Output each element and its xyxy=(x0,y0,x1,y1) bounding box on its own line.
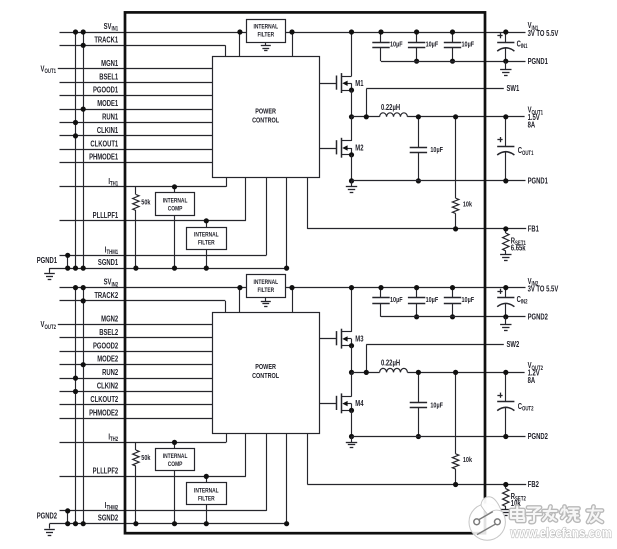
svg-text:PGND1: PGND1 xyxy=(528,177,548,186)
wire MODE1 xyxy=(60,109,213,111)
wire MGN1 xyxy=(58,68,212,70)
wire svin drops xyxy=(239,32,241,57)
svg-text:PGND2: PGND2 xyxy=(528,432,548,441)
capacitor 10uF input 1 ch1 xyxy=(380,32,382,42)
svg-text:8A: 8A xyxy=(528,121,536,130)
wire comp stubs xyxy=(174,442,176,448)
svg-text:50k: 50k xyxy=(141,199,150,207)
resistor 10k ch2 xyxy=(455,372,457,453)
wire filter stubs xyxy=(206,476,208,483)
capacitor 10uF output ch2 xyxy=(418,372,420,402)
svg-text:PGND1: PGND1 xyxy=(528,57,548,66)
wire MODE2 xyxy=(60,364,213,366)
svg-text:BSEL1: BSEL1 xyxy=(99,72,118,81)
svg-text:CONTROL: CONTROL xyxy=(252,117,279,125)
wire PGND2 lower rail xyxy=(352,436,526,438)
wire CLKOUT1 xyxy=(60,149,213,151)
svg-text:10k: 10k xyxy=(463,456,472,464)
svg-text:SW2: SW2 xyxy=(507,340,520,349)
svg-text:CLKOUT2: CLKOUT2 xyxy=(90,395,118,404)
internal comp box ch2 xyxy=(156,449,195,471)
wire SGND1 xyxy=(50,268,287,270)
svg-text:INTERNAL: INTERNAL xyxy=(163,198,188,205)
svg-text:BSEL2: BSEL2 xyxy=(99,328,118,337)
wire CLKOUT2 xyxy=(60,404,213,406)
ground below R_SET2 xyxy=(500,509,511,511)
capacitor 10uF input 2 ch2 xyxy=(416,288,418,298)
wire PHMODE2 xyxy=(60,418,213,420)
internal comp box ch1 xyxy=(156,193,195,216)
svg-text:MODE2: MODE2 xyxy=(97,355,118,364)
wire PGOOD1 xyxy=(60,95,213,97)
wire filter stubs xyxy=(206,221,208,228)
svg-text:0.22µH: 0.22µH xyxy=(381,103,400,112)
wire PGOOD2 xyxy=(60,351,213,353)
ground PGND1 xyxy=(49,268,51,273)
watermark text dianzifashaoyou xyxy=(511,507,602,523)
transistor M4 xyxy=(337,393,355,413)
wire svin drops xyxy=(239,288,241,313)
wire TRACK2 xyxy=(60,300,226,302)
wire ITHM1 xyxy=(60,255,267,257)
svg-text:10µF: 10µF xyxy=(430,146,443,154)
wire SV_IN2 xyxy=(60,287,526,289)
wire drain M3 xyxy=(351,288,353,332)
svg-text:CONTROL: CONTROL xyxy=(252,372,279,380)
internal filter box lower ch1 xyxy=(187,228,227,250)
svg-text:TRACK2: TRACK2 xyxy=(94,291,118,300)
wire source M1 xyxy=(351,90,353,117)
resistor R_SET2 xyxy=(505,485,507,489)
svg-text:M1: M1 xyxy=(355,79,363,88)
wire CLKIN2 xyxy=(60,391,213,393)
svg-text:PGOOD1: PGOOD1 xyxy=(93,86,118,95)
ground PGND2 xyxy=(49,524,51,529)
ground below M4 xyxy=(351,437,353,443)
ground internal filter xyxy=(265,42,267,46)
wire left rail B xyxy=(83,288,85,524)
svg-text:POWER: POWER xyxy=(255,363,276,371)
svg-text:PHMODE2: PHMODE2 xyxy=(89,408,118,417)
wire PLLLPF1 xyxy=(60,220,246,222)
wire source M2 xyxy=(351,155,353,181)
wire PGND2 top rail xyxy=(381,316,526,318)
svg-text:PGND2: PGND2 xyxy=(528,313,548,322)
capacitor C_IN1 xyxy=(505,32,507,42)
resistor 50k ch1 xyxy=(135,187,137,195)
svg-text:RUN1: RUN1 xyxy=(102,113,118,122)
wire left rail A xyxy=(75,288,77,524)
wire left rail A xyxy=(75,32,77,268)
wire gate M2 xyxy=(319,148,337,150)
op-amp U2 POWER CONTROL xyxy=(213,313,320,434)
internal filter box top ch1 xyxy=(247,20,286,43)
transistor M1 xyxy=(337,73,355,93)
svg-text:0.22µH: 0.22µH xyxy=(381,359,400,368)
svg-text:INTERNAL: INTERNAL xyxy=(253,280,278,287)
svg-text:INTERNAL: INTERNAL xyxy=(253,24,278,31)
wire PGND2 tie xyxy=(67,511,69,524)
svg-text:CLKOUT1: CLKOUT1 xyxy=(90,139,118,148)
svg-text:INTERNAL: INTERNAL xyxy=(194,488,219,495)
svg-text:FILTER: FILTER xyxy=(257,288,274,295)
wire source M3 xyxy=(351,346,353,373)
internal filter box lower ch2 xyxy=(187,483,227,505)
wire left rail B xyxy=(83,32,85,268)
wire PGND1 tie xyxy=(67,255,69,268)
svg-text:FILTER: FILTER xyxy=(198,240,215,247)
svg-text:TRACK1: TRACK1 xyxy=(94,35,118,44)
svg-text:FILTER: FILTER xyxy=(257,32,274,39)
svg-text:MGN2: MGN2 xyxy=(101,315,118,324)
transistor M3 xyxy=(337,329,355,349)
svg-text:PGND1: PGND1 xyxy=(37,256,57,265)
svg-text:10µF: 10µF xyxy=(462,41,475,49)
wire drain M1 xyxy=(351,32,353,76)
svg-text:RUN2: RUN2 xyxy=(102,368,118,377)
wire PHMODE1 xyxy=(60,162,213,164)
capacitor C_OUT1 xyxy=(505,117,507,146)
wire SW1 xyxy=(366,89,368,117)
svg-text:10µF: 10µF xyxy=(390,41,403,49)
svg-text:3V TO 5.5V: 3V TO 5.5V xyxy=(528,285,559,294)
svg-text:10µF: 10µF xyxy=(426,296,439,304)
wire comp stubs xyxy=(174,187,176,193)
svg-text:3V TO 5.5V: 3V TO 5.5V xyxy=(528,29,559,38)
watermark logo circle xyxy=(469,497,505,540)
svg-text:M3: M3 xyxy=(355,335,363,344)
wire BSEL2 xyxy=(60,337,213,339)
capacitor 10uF output ch1 xyxy=(418,117,420,147)
svg-text:10k: 10k xyxy=(463,201,472,209)
node SW1 xyxy=(352,116,380,118)
wire ITH2 xyxy=(60,442,227,444)
svg-text:FILTER: FILTER xyxy=(198,496,215,503)
capacitor 10uF input 1 ch2 xyxy=(380,288,382,298)
svg-text:6.65k: 6.65k xyxy=(511,244,526,253)
svg-text:M2: M2 xyxy=(355,144,363,153)
svg-text:8A: 8A xyxy=(528,376,536,385)
wire PGND1 top rail xyxy=(381,61,526,63)
svg-text:CLKIN1: CLKIN1 xyxy=(97,126,118,135)
svg-text:PGOOD2: PGOOD2 xyxy=(93,341,118,350)
op-amp U1 POWER CONTROL xyxy=(213,57,320,178)
ground internal filter xyxy=(265,298,267,302)
svg-text:10µF: 10µF xyxy=(430,402,443,410)
inductor 0.22uH ch2 xyxy=(380,368,408,372)
wire gate M3 xyxy=(319,338,337,340)
wire BSEL1 xyxy=(60,82,213,84)
chip module outline xyxy=(125,12,485,533)
resistor 10k ch1 xyxy=(455,117,457,198)
wire TRACK1 xyxy=(60,45,226,47)
ground below C_IN2 xyxy=(505,317,507,325)
svg-text:50k: 50k xyxy=(141,454,150,462)
wire ITHM2 xyxy=(60,510,267,512)
svg-text:SW1: SW1 xyxy=(507,84,520,93)
inductor 0.22uH ch1 xyxy=(380,113,408,117)
svg-text:www.elecfans.com: www.elecfans.com xyxy=(510,526,612,542)
wire gate M1 xyxy=(319,83,337,85)
wire source M4 xyxy=(351,410,353,436)
node SW2 xyxy=(352,372,380,374)
wire ITH1 xyxy=(60,186,227,188)
wire FB2 xyxy=(307,433,309,484)
wire VOUT2 xyxy=(407,372,524,374)
svg-text:COMP: COMP xyxy=(168,206,183,213)
svg-text:INTERNAL: INTERNAL xyxy=(163,453,188,460)
svg-text:CLKIN2: CLKIN2 xyxy=(97,382,118,391)
svg-text:POWER: POWER xyxy=(255,108,276,116)
capacitor 10uF input 3 ch1 xyxy=(452,32,454,42)
wire FB1 xyxy=(307,178,309,229)
svg-text:PHMODE1: PHMODE1 xyxy=(89,153,118,162)
resistor R_SET1 xyxy=(505,229,507,233)
svg-text:MODE1: MODE1 xyxy=(97,99,118,108)
svg-text:COMP: COMP xyxy=(168,461,183,468)
svg-text:10µF: 10µF xyxy=(462,296,475,304)
wire PGND1 lower rail xyxy=(352,180,526,182)
svg-text:10µF: 10µF xyxy=(426,41,439,49)
wire drain M4 xyxy=(351,372,353,396)
ground below C_IN1 xyxy=(505,61,507,69)
wire SW2 xyxy=(366,344,368,372)
wire MGN2 xyxy=(58,324,212,326)
svg-text:FB1: FB1 xyxy=(528,224,539,233)
wire VOUT1 xyxy=(407,116,524,118)
capacitor 10uF input 3 ch2 xyxy=(452,288,454,298)
wire gate M4 xyxy=(319,403,337,405)
svg-text:SGND1: SGND1 xyxy=(98,258,118,267)
svg-text:M4: M4 xyxy=(355,399,363,408)
wire RUN2 xyxy=(60,378,213,380)
resistor 50k ch2 xyxy=(135,442,137,450)
wire SGND2 xyxy=(50,523,287,525)
wire RUN1 xyxy=(60,122,213,124)
svg-text:MGN1: MGN1 xyxy=(101,59,118,68)
svg-text:INTERNAL: INTERNAL xyxy=(194,232,219,239)
svg-text:10µF: 10µF xyxy=(390,296,403,304)
svg-text:SGND2: SGND2 xyxy=(98,514,118,523)
internal filter box top ch2 xyxy=(247,275,286,298)
capacitor C_OUT2 xyxy=(505,372,507,401)
svg-text:PLLLPF1: PLLLPF1 xyxy=(93,211,119,220)
transistor M2 xyxy=(337,138,355,158)
ground below M2 xyxy=(351,181,353,187)
wire CLKIN1 xyxy=(60,135,213,137)
wire drain M2 xyxy=(351,117,353,141)
wire SV_IN1 xyxy=(60,32,526,34)
capacitor C_IN2 xyxy=(505,288,507,298)
capacitor 10uF input 2 ch1 xyxy=(416,32,418,42)
svg-text:PGND2: PGND2 xyxy=(37,512,57,521)
ground below R_SET1 xyxy=(500,254,511,256)
wire PLLLPF2 xyxy=(60,476,246,478)
svg-text:PLLLPF2: PLLLPF2 xyxy=(93,467,119,476)
svg-text:FB2: FB2 xyxy=(528,480,539,489)
